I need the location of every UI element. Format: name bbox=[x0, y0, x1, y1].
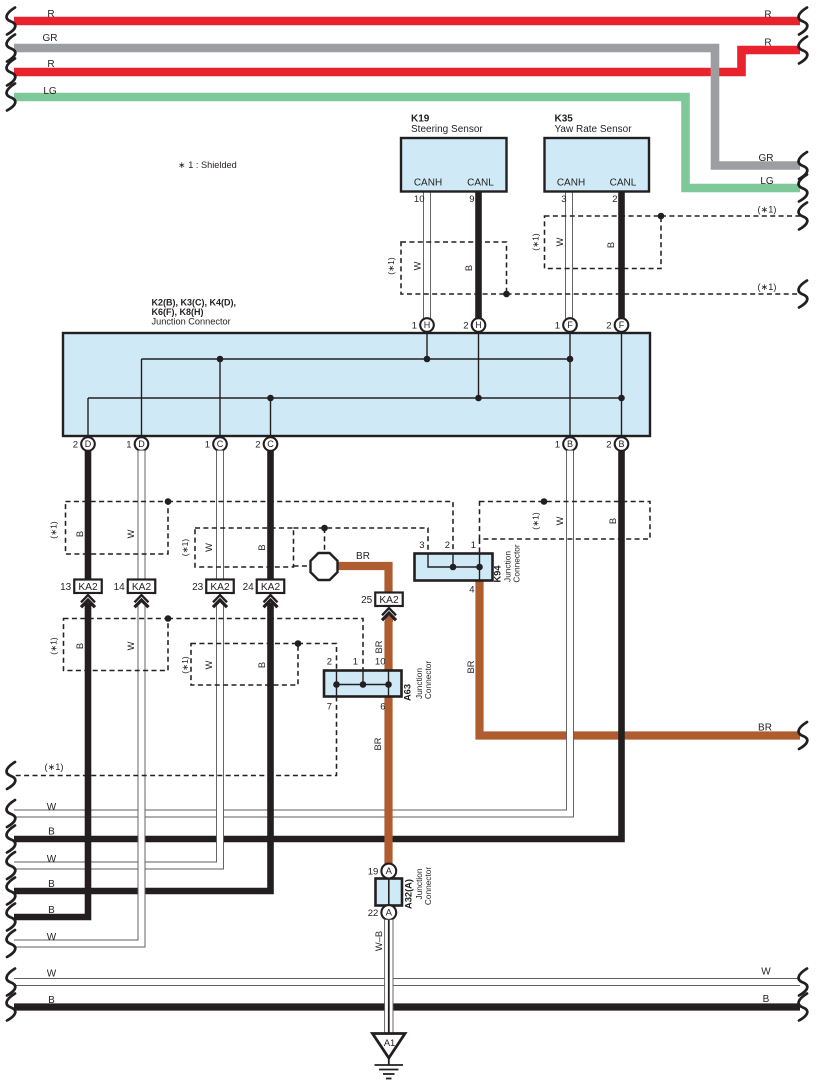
svg-text:W: W bbox=[47, 969, 57, 980]
shield dashed box B wires bbox=[480, 502, 651, 540]
svg-text:(∗1): (∗1) bbox=[49, 521, 59, 539]
shield dashed box D wires bbox=[66, 502, 169, 555]
ground A1 triangle bbox=[373, 1034, 406, 1059]
svg-text:B: B bbox=[606, 242, 616, 248]
internal wire bus to D1 bbox=[141, 359, 143, 436]
yaw rate sensor K35 box bbox=[545, 138, 650, 192]
break right (*1) upper bbox=[799, 203, 808, 230]
svg-text:BR: BR bbox=[758, 723, 772, 734]
svg-text:A63: A63 bbox=[403, 684, 413, 701]
junction connector K94 box bbox=[415, 554, 493, 581]
svg-text:1: 1 bbox=[471, 540, 476, 551]
A63 internal pin1 riser bbox=[362, 671, 364, 685]
svg-text:2: 2 bbox=[463, 321, 468, 332]
svg-text:W: W bbox=[47, 802, 57, 813]
svg-text:2: 2 bbox=[612, 194, 617, 205]
shield dashed line box C lower to A63 pin 2 bbox=[298, 644, 337, 671]
svg-text:10: 10 bbox=[414, 194, 425, 205]
svg-text:D: D bbox=[85, 439, 92, 449]
junction connector A32 box bbox=[376, 879, 403, 906]
svg-text:K6(F), K8(H): K6(F), K8(H) bbox=[152, 307, 204, 317]
break left W bus1 bbox=[7, 800, 16, 827]
internal wire bus to C2 bbox=[270, 398, 272, 436]
wire B from D2 to left bus bbox=[14, 451, 88, 918]
break right GR bbox=[799, 152, 808, 179]
svg-text:CANH: CANH bbox=[414, 178, 442, 189]
svg-text:BR: BR bbox=[374, 640, 384, 653]
svg-text:BR: BR bbox=[356, 551, 370, 562]
shield dashed stub box C to octagon bbox=[294, 565, 311, 567]
break left LG bbox=[7, 84, 16, 111]
svg-text:B: B bbox=[48, 879, 55, 890]
svg-text:22: 22 bbox=[368, 908, 379, 919]
wire B from B2 to left bus bbox=[14, 451, 622, 840]
node shield corner box D bbox=[165, 498, 172, 505]
wire B bus full width bbox=[14, 1003, 800, 1010]
svg-text:Connector: Connector bbox=[423, 867, 433, 906]
shield dashed line (*1) right from K35 box bbox=[661, 215, 800, 217]
svg-text:1: 1 bbox=[555, 321, 560, 332]
wire W shielded pair from D1 upper bbox=[138, 451, 144, 791]
shield dashed line box C to K94 pin 3 bbox=[294, 528, 429, 554]
svg-text:KA2: KA2 bbox=[78, 582, 98, 593]
break left W bus3 bbox=[7, 852, 16, 879]
svg-text:13: 13 bbox=[60, 582, 72, 593]
shield dashed riser to octagon bbox=[324, 528, 326, 553]
wire BR KA2 25 to A63 pin 10 bbox=[384, 606, 392, 671]
A63 internal pin2-7 through bbox=[336, 671, 338, 697]
break right W bus bbox=[799, 969, 808, 996]
break right R second bbox=[799, 37, 808, 64]
svg-text:B: B bbox=[75, 531, 85, 537]
svg-text:KA2: KA2 bbox=[261, 582, 281, 593]
break left R top bbox=[7, 8, 16, 35]
svg-text:W: W bbox=[47, 932, 57, 943]
ground hatch lines bbox=[375, 1064, 404, 1066]
wire BR A63 pin 6 to A32 pin 19 bbox=[384, 697, 392, 867]
svg-text:2: 2 bbox=[327, 657, 332, 668]
svg-text:KA2: KA2 bbox=[210, 582, 230, 593]
svg-text:2: 2 bbox=[73, 440, 78, 451]
svg-text:W–B: W–B bbox=[374, 931, 384, 951]
break right B bus bbox=[799, 994, 808, 1021]
wire W shielded pair C1 to left bus bbox=[14, 790, 220, 866]
svg-text:D: D bbox=[138, 439, 145, 449]
svg-text:K19: K19 bbox=[411, 114, 430, 125]
shield arrow KA2 25 bbox=[379, 607, 400, 621]
internal CANL bus line bbox=[88, 397, 622, 399]
svg-text:Connector: Connector bbox=[423, 661, 433, 700]
svg-text:K2(B), K3(C), K4(D),: K2(B), K3(C), K4(D), bbox=[152, 298, 237, 308]
break left GR bbox=[7, 35, 16, 62]
wire W shielded pair from B1 upper bbox=[567, 451, 573, 701]
octagon shield connector bbox=[311, 553, 338, 580]
svg-text:R: R bbox=[47, 9, 54, 20]
svg-text:24: 24 bbox=[243, 582, 255, 593]
svg-text:B: B bbox=[257, 544, 267, 550]
shield dashed from A63 pin 7 to left edge bbox=[14, 697, 337, 776]
node shield box B bbox=[541, 498, 548, 505]
wire W bus full width bbox=[14, 979, 800, 985]
svg-text:A: A bbox=[386, 908, 393, 919]
internal wire F1-B1 bbox=[569, 333, 571, 436]
wire K35 CANH shielded pair bbox=[566, 192, 572, 319]
svg-text:K35: K35 bbox=[555, 114, 574, 125]
node shield K19 corner bbox=[503, 291, 510, 298]
svg-text:6: 6 bbox=[380, 702, 385, 713]
svg-text:1: 1 bbox=[555, 440, 560, 451]
wire R bus top bbox=[14, 17, 800, 26]
shield dashed box C wires bbox=[195, 528, 294, 567]
shield arrow KA2 23 bbox=[210, 594, 231, 608]
shield dashed line (*1) right from K19 box bbox=[507, 293, 801, 295]
shield arrow KA2 24 bbox=[260, 594, 281, 608]
shield dashed box D lower bbox=[64, 619, 169, 671]
K94 internal pin2 riser bbox=[452, 554, 454, 568]
svg-text:B: B bbox=[75, 643, 85, 649]
svg-text:(∗1): (∗1) bbox=[180, 539, 190, 557]
wire W-B from A32 pin 22 to ground bbox=[385, 920, 394, 1034]
svg-text:B: B bbox=[48, 995, 55, 1006]
node H1 junction bbox=[424, 356, 431, 363]
node shield corner box D lower bbox=[165, 615, 172, 622]
break right (*1) second bbox=[799, 281, 808, 308]
shield arrow KA2 13 bbox=[78, 594, 99, 608]
svg-text:(∗1): (∗1) bbox=[758, 205, 777, 215]
svg-text:B: B bbox=[48, 827, 55, 838]
svg-text:4: 4 bbox=[469, 585, 474, 596]
node shield corner box C lower bbox=[295, 640, 302, 647]
svg-text:25: 25 bbox=[361, 595, 373, 606]
node F1 junction bbox=[567, 356, 574, 363]
svg-text:(∗1): (∗1) bbox=[758, 282, 777, 292]
internal wire bus to D2 bbox=[87, 398, 89, 436]
wire W shielded pair B1 to left bus bbox=[14, 700, 570, 814]
svg-text:B: B bbox=[464, 265, 474, 271]
break left B bus2 bbox=[7, 826, 16, 853]
wire GR bus with jog down to right edge bbox=[14, 48, 800, 166]
wire B from C2 to left bus bbox=[14, 451, 271, 892]
svg-text:KA2: KA2 bbox=[132, 582, 152, 593]
node shield above octagon bbox=[321, 525, 328, 532]
shield dashed riser to K94 pin 1 bbox=[479, 539, 481, 554]
svg-text:B: B bbox=[257, 662, 267, 668]
svg-text:A1: A1 bbox=[384, 1038, 395, 1048]
wire K19 CANH shielded pair bbox=[424, 192, 430, 319]
wire W shielded pair from C1 upper bbox=[217, 451, 223, 791]
svg-text:W: W bbox=[47, 854, 57, 865]
svg-text:Yaw Rate Sensor: Yaw Rate Sensor bbox=[555, 124, 633, 135]
svg-text:23: 23 bbox=[192, 582, 204, 593]
node A63 pin1 bbox=[360, 681, 367, 688]
svg-text:KA2: KA2 bbox=[379, 595, 399, 606]
shield arrow KA2 14 bbox=[131, 594, 152, 608]
internal wire bus to C1 bbox=[219, 359, 221, 436]
svg-text:Steering Sensor: Steering Sensor bbox=[411, 124, 483, 135]
svg-text:2: 2 bbox=[606, 440, 611, 451]
svg-text:W: W bbox=[413, 261, 423, 270]
wire W shielded pair D1 to left bus bbox=[14, 790, 142, 944]
break left W bus6 bbox=[7, 930, 16, 957]
shield dashed line from box D to K94 pin 2 bbox=[168, 502, 453, 554]
svg-text:2: 2 bbox=[445, 540, 450, 551]
break left R second bbox=[7, 59, 16, 86]
svg-text:R: R bbox=[764, 38, 771, 49]
internal wire H2 to bus bbox=[478, 333, 480, 398]
svg-text:1: 1 bbox=[412, 321, 417, 332]
wire K35 CANL B bbox=[618, 192, 625, 319]
junction connector A63 box bbox=[324, 671, 402, 697]
svg-text:F: F bbox=[567, 320, 573, 330]
svg-text:A32(A): A32(A) bbox=[404, 879, 414, 909]
svg-text:CANL: CANL bbox=[610, 178, 637, 189]
node F2 junction bbox=[618, 395, 625, 402]
svg-text:B: B bbox=[763, 994, 770, 1005]
svg-text:W: W bbox=[555, 237, 565, 246]
svg-text:W: W bbox=[204, 543, 214, 552]
break right BR bbox=[799, 722, 808, 749]
svg-text:CANH: CANH bbox=[557, 178, 585, 189]
svg-text:B: B bbox=[608, 518, 618, 524]
svg-text:9: 9 bbox=[469, 194, 474, 205]
svg-text:(∗1): (∗1) bbox=[49, 637, 59, 655]
svg-text:W: W bbox=[555, 516, 565, 525]
svg-text:10: 10 bbox=[375, 657, 386, 668]
svg-text:R: R bbox=[764, 10, 771, 21]
svg-text:2: 2 bbox=[606, 321, 611, 332]
shield dashed box C lower bbox=[191, 644, 298, 686]
svg-text:(∗1): (∗1) bbox=[386, 257, 396, 275]
svg-text:19: 19 bbox=[368, 867, 379, 878]
svg-text:7: 7 bbox=[327, 702, 332, 713]
svg-text:(∗1): (∗1) bbox=[45, 762, 64, 772]
break left B bus4 bbox=[7, 878, 16, 905]
svg-text:B: B bbox=[618, 439, 624, 449]
A63 internal bus bbox=[337, 684, 389, 686]
svg-text:W: W bbox=[761, 967, 771, 978]
svg-text:W: W bbox=[126, 529, 136, 538]
svg-text:(∗1): (∗1) bbox=[531, 233, 541, 251]
svg-text:F: F bbox=[619, 320, 625, 330]
svg-text:(∗1): (∗1) bbox=[180, 656, 190, 674]
K94 internal bus bbox=[428, 554, 480, 568]
node shield K35 corner bbox=[658, 213, 665, 220]
svg-text:K94: K94 bbox=[493, 565, 503, 583]
svg-text:3: 3 bbox=[561, 194, 566, 205]
svg-text:14: 14 bbox=[114, 582, 126, 593]
wire R bus second with jog up to right edge bbox=[14, 50, 800, 72]
svg-text:H: H bbox=[475, 320, 482, 330]
break left B bus5 bbox=[7, 904, 16, 931]
K94 internal pin1 through bbox=[479, 554, 481, 581]
wire K19 CANL B bbox=[475, 192, 482, 319]
node C2 junction bbox=[267, 395, 274, 402]
A63 internal pin10-6 through bbox=[388, 671, 390, 697]
svg-text:1: 1 bbox=[126, 440, 131, 451]
svg-text:C: C bbox=[267, 439, 274, 449]
internal CANH bus line bbox=[142, 358, 571, 360]
break left (*1) bbox=[7, 762, 16, 789]
svg-text:Connector: Connector bbox=[512, 544, 522, 583]
steering sensor K19 box bbox=[401, 138, 507, 192]
break right R top bbox=[799, 8, 808, 35]
break right LG bbox=[799, 175, 808, 202]
svg-text:CANL: CANL bbox=[467, 178, 494, 189]
node H2 junction bbox=[475, 395, 482, 402]
wire BR octagon to KA2 25 bbox=[337, 566, 389, 593]
svg-text:W: W bbox=[204, 660, 214, 669]
svg-text:3: 3 bbox=[419, 540, 424, 551]
wire LG bus with jog down to right edge bbox=[14, 97, 800, 188]
svg-text:Junction Connector: Junction Connector bbox=[152, 317, 231, 327]
wire BR from K94 pin 4 to right edge bbox=[480, 581, 801, 736]
shield dashed box K19 wires bbox=[401, 242, 507, 294]
shield dashed box K35 wires bbox=[545, 216, 662, 269]
node K94 pin2 bbox=[450, 564, 457, 571]
junction connector K2/K3/K4/K6/K8 box bbox=[63, 333, 650, 436]
svg-text:1: 1 bbox=[205, 440, 210, 451]
svg-text:∗ 1 : Shielded: ∗ 1 : Shielded bbox=[178, 160, 237, 170]
internal wire F2-B2 bbox=[621, 333, 623, 436]
svg-text:W: W bbox=[126, 641, 136, 650]
node A63 pin10 bbox=[385, 681, 392, 688]
svg-text:2: 2 bbox=[255, 440, 260, 451]
svg-text:BR: BR bbox=[466, 660, 476, 673]
node C1 junction bbox=[217, 356, 224, 363]
break left W bus bbox=[7, 969, 16, 996]
break left B bus bbox=[7, 994, 16, 1021]
node K94 pin1 bbox=[476, 564, 483, 571]
ground stem bbox=[388, 1058, 390, 1065]
svg-text:(∗1): (∗1) bbox=[531, 512, 541, 530]
svg-text:B: B bbox=[567, 439, 573, 449]
svg-text:1: 1 bbox=[353, 657, 358, 668]
svg-text:B: B bbox=[48, 905, 55, 916]
svg-text:R: R bbox=[47, 59, 54, 70]
svg-text:LG: LG bbox=[43, 86, 57, 97]
A32 internal divider bbox=[388, 879, 390, 906]
svg-text:C: C bbox=[217, 439, 224, 449]
node A63 pin2 bbox=[333, 681, 340, 688]
svg-text:LG: LG bbox=[760, 176, 774, 187]
shield dashed line box D2 to A63 pin 1 bbox=[168, 619, 363, 671]
svg-text:A: A bbox=[386, 866, 393, 877]
internal wire H1 to bus bbox=[426, 333, 428, 359]
svg-text:H: H bbox=[424, 320, 431, 330]
svg-text:BR: BR bbox=[373, 737, 383, 750]
svg-text:GR: GR bbox=[759, 153, 774, 164]
svg-text:GR: GR bbox=[43, 33, 58, 44]
